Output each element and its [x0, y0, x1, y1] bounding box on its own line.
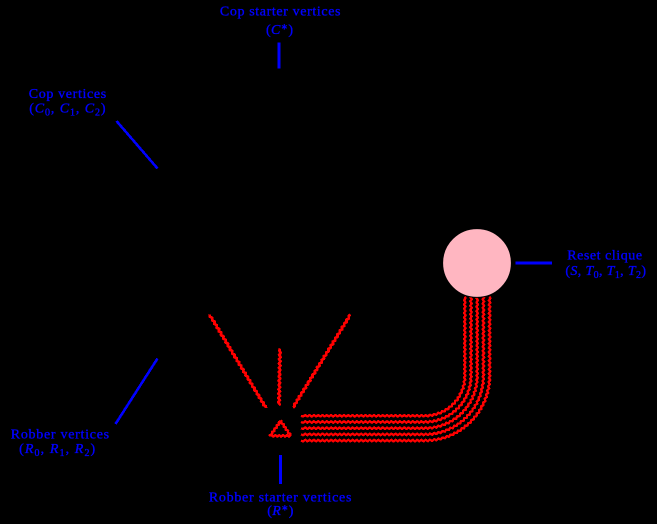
- pointer line: robber vertices: [116, 359, 158, 425]
- red edge: robber-starter fan middle: [278, 349, 281, 406]
- svg-text:(R0, R1, R2): (R0, R1, R2): [19, 442, 96, 459]
- pointer line: reset clique: [516, 262, 553, 265]
- red edge bundle 1 to reset clique: [301, 297, 466, 417]
- svg-text:Cop starter vertices: Cop starter vertices: [220, 5, 341, 20]
- red edge bundle 2 to reset clique: [301, 297, 472, 423]
- red edge bundle 4 to reset clique: [301, 297, 484, 436]
- red edge bundle 5 to reset clique: [301, 297, 490, 442]
- svg-text:(C∗): (C∗): [266, 22, 293, 39]
- pointer line: cop vertices: [117, 121, 158, 169]
- red edge: robber-starter fan up-left: [210, 315, 267, 409]
- robber starter vertex (triangle): [270, 421, 291, 437]
- svg-text:Robber vertices: Robber vertices: [11, 427, 110, 442]
- svg-text:(C0, C1, C2): (C0, C1, C2): [29, 102, 106, 119]
- pointer line: cop starter: [278, 43, 281, 69]
- pointer line: robber starter: [279, 455, 282, 484]
- red edge: robber-starter fan up-right: [293, 315, 351, 408]
- red edge bundle 3 to reset clique: [301, 297, 478, 430]
- reset clique circle: [443, 229, 512, 298]
- svg-text:(R∗): (R∗): [267, 503, 294, 520]
- svg-text:(S, T0, T1, T2): (S, T0, T1, T2): [565, 264, 646, 281]
- svg-text:Reset clique: Reset clique: [567, 249, 642, 264]
- svg-text:Cop vertices: Cop vertices: [29, 87, 107, 102]
